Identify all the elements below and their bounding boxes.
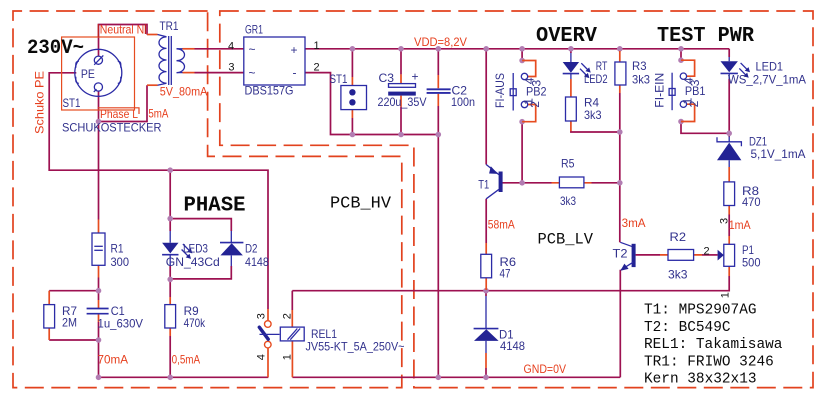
- junction R6/D1: [483, 288, 489, 294]
- svg-text:T1: T1: [478, 177, 489, 191]
- svg-text:2: 2: [687, 100, 701, 107]
- svg-text:+: +: [291, 43, 298, 57]
- wire LED3/D2 node down to R9: [169, 279, 171, 297]
- svg-text:R5: R5: [561, 156, 575, 170]
- svg-text:5,1V_1mA: 5,1V_1mA: [751, 147, 806, 161]
- capacitor C3 electrolytic: [378, 70, 427, 110]
- svg-text:Schuko PE: Schuko PE: [33, 71, 47, 134]
- wire Phase branch to TR1 primary bottom: [99, 85, 148, 121]
- svg-text:0,5mA: 0,5mA: [172, 353, 201, 367]
- wire T1 base to PB2/R5 node: [502, 182, 522, 184]
- svg-text:~: ~: [249, 66, 256, 80]
- svg-text:470: 470: [742, 195, 761, 209]
- svg-text:3k3: 3k3: [584, 108, 602, 122]
- svg-text:SCHUKOSTECKER: SCHUKOSTECKER: [62, 120, 162, 134]
- diode D2: [220, 231, 269, 269]
- svg-text:D2: D2: [245, 241, 258, 255]
- wire C2 top riser: [437, 49, 439, 75]
- wire GND rail: [292, 376, 620, 378]
- svg-text:PCB_HV: PCB_HV: [330, 194, 391, 213]
- resistor R2: [660, 230, 702, 282]
- junction VDD C3: [398, 46, 404, 52]
- svg-text:4: 4: [256, 354, 268, 360]
- svg-text:1: 1: [719, 292, 731, 298]
- svg-text:-: -: [293, 66, 297, 80]
- svg-text:Phase L: Phase L: [100, 107, 138, 121]
- junction HV rail left: [96, 375, 102, 381]
- svg-text:TR1: TR1: [160, 19, 179, 33]
- wire VDD rail end down to LED1: [728, 49, 730, 57]
- svg-text:70mA: 70mA: [98, 353, 129, 367]
- wire PE junction down to LED3/D2 top node: [169, 170, 171, 218]
- wire R8 bottom to P1 top: [728, 215, 730, 237]
- svg-text:4: 4: [228, 40, 234, 52]
- wire node down to HV bottom rail: [98, 340, 100, 377]
- svg-text:OVERV: OVERV: [536, 25, 597, 48]
- svg-text:1mA: 1mA: [729, 218, 751, 232]
- wire R2 to P1 wiper: [702, 254, 718, 256]
- svg-text:300: 300: [111, 255, 130, 269]
- junction VDD PB1: [678, 46, 684, 52]
- wire VDD to R3 top: [619, 49, 621, 51]
- svg-text:GR1: GR1: [245, 23, 263, 37]
- svg-text:3mA: 3mA: [622, 216, 646, 230]
- wire C3 bottom drop: [400, 107, 402, 135]
- resistor R6: [481, 243, 517, 290]
- wire Phase down to R1: [98, 122, 100, 220]
- svg-text:2: 2: [704, 245, 710, 257]
- wire GR1 pin 1 to VDD rail: [315, 48, 730, 50]
- junction minus rail C3: [398, 132, 404, 138]
- relay REL1 contact: [256, 309, 294, 360]
- junction minus rail ST1: [350, 132, 356, 138]
- wire C1 bottom to node: [49, 322, 98, 340]
- svg-text:ST1: ST1: [63, 96, 81, 110]
- wire R5 right to T2 collector node: [592, 182, 620, 184]
- resistor R5: [552, 156, 592, 207]
- pushbutton PB1: [653, 60, 706, 121]
- capacitor C1: [87, 300, 143, 330]
- resistor R9: [165, 297, 206, 336]
- junction minus rail C2: [436, 132, 442, 138]
- wire D1 bottom to GND rail: [485, 368, 487, 377]
- wire C2 bottom long drop to GND rail: [437, 106, 439, 377]
- svg-text:GN_43Cd: GN_43Cd: [166, 255, 220, 269]
- svg-text:470k: 470k: [184, 316, 206, 330]
- potentiometer P1: [704, 218, 761, 298]
- svg-text:3: 3: [256, 313, 268, 319]
- junction GND rail D1: [483, 375, 489, 381]
- pushbutton PB2: [493, 61, 547, 122]
- wire TR1 secondary bottom to GR1 pin 3: [195, 72, 235, 74]
- svg-text:REL1: Takamisawa: REL1: Takamisawa: [644, 337, 783, 353]
- svg-text:47: 47: [500, 266, 511, 280]
- svg-text:PB2: PB2: [526, 85, 547, 99]
- label Neutral N: [98, 23, 145, 37]
- svg-text:3k3: 3k3: [668, 268, 688, 282]
- wire ST1 pin 1 riser: [351, 49, 353, 77]
- svg-text:230V~: 230V~: [27, 37, 84, 60]
- junction Phase at plug: [96, 119, 102, 125]
- wire D1 top lead: [485, 291, 487, 296]
- transistor T1 (PNP): [478, 165, 502, 199]
- svg-text:T1: MPS2907AG: T1: MPS2907AG: [644, 303, 757, 319]
- wire LED3 bottom: [169, 266, 171, 279]
- svg-text:PE: PE: [81, 67, 95, 81]
- svg-text:5mA: 5mA: [148, 107, 168, 121]
- svg-text:PB1: PB1: [685, 84, 706, 98]
- capacitor C2: [427, 75, 475, 109]
- svg-text:FI-AUS: FI-AUS: [493, 73, 507, 108]
- wire T1 collector to R6: [485, 199, 487, 243]
- wire base node to R5 left: [522, 182, 551, 184]
- svg-text:WS_2,7V_1mA: WS_2,7V_1mA: [728, 73, 806, 87]
- LED LED3: [162, 231, 220, 269]
- junction HV rail R9: [167, 375, 173, 381]
- resistor R4: [566, 89, 602, 123]
- relay REL1 coil: [280, 310, 404, 377]
- junction VDD ST1: [350, 46, 356, 52]
- svg-text:TR1: FRIWO 3246: TR1: FRIWO 3246: [644, 354, 774, 370]
- transistor T2 (NPN): [613, 242, 636, 270]
- wire VDD to PB1 top: [680, 49, 682, 60]
- connector ST1 schuko plug: [75, 49, 122, 96]
- wire HV bottom rail: [99, 376, 269, 378]
- svg-text:GND=0V: GND=0V: [524, 362, 567, 376]
- junction PE node: [167, 167, 173, 173]
- svg-text:T2: T2: [613, 246, 628, 260]
- wire T2 base to R2: [636, 254, 660, 256]
- svg-text:2: 2: [528, 101, 542, 108]
- svg-text:~: ~: [249, 43, 256, 57]
- connector ST1 schuko plug symbol box: [62, 37, 135, 110]
- bridge rectifier GR1: [228, 23, 320, 98]
- wire node to C1 top: [98, 291, 100, 300]
- svg-text:ST1: ST1: [330, 72, 348, 86]
- svg-text:4148: 4148: [245, 255, 269, 269]
- junction R5/T2 collector: [617, 180, 623, 186]
- transformer TR1: [147, 19, 207, 121]
- svg-text:C3: C3: [379, 71, 395, 85]
- svg-text:3k3: 3k3: [632, 72, 650, 86]
- svg-text:RT: RT: [596, 59, 608, 73]
- LED LED1: [721, 57, 807, 87]
- wire T2 collector riser: [619, 183, 621, 243]
- svg-text:R3: R3: [632, 59, 647, 73]
- svg-text:5V_80mA: 5V_80mA: [160, 84, 208, 98]
- wire HV rail stub to relay contact pin 4: [267, 348, 269, 377]
- wire VDD to LED2: [570, 49, 572, 53]
- wire Phase: plug bottom pin down to junction: [98, 91, 100, 121]
- wire LED1 bottom to DZ1 node: [728, 79, 730, 137]
- svg-text:1: 1: [314, 40, 320, 52]
- wire R4 bottom to R3 node: [570, 121, 572, 132]
- junction VDD LED2: [568, 46, 574, 52]
- junction R4/R3: [617, 129, 623, 135]
- svg-text:1u_630V: 1u_630V: [98, 316, 144, 330]
- connector ST1 (pcb): [330, 72, 367, 118]
- svg-text:FI-EIN: FI-EIN: [653, 73, 667, 108]
- junction PB1 top pin: [678, 57, 684, 63]
- svg-text:PCB_LV: PCB_LV: [538, 231, 594, 249]
- junction VDD R3: [617, 46, 623, 52]
- wire Neutral: plug top pin to TR1 primary top: [99, 25, 148, 57]
- svg-text:58mA: 58mA: [488, 217, 515, 231]
- junction VDD C2: [436, 46, 442, 52]
- junction VDD PB2: [519, 46, 525, 52]
- wire P1 bottom to relay drive node: [292, 276, 729, 291]
- PCB_LV boundary dashed frame: [220, 11, 813, 388]
- junction GND rail C2 drop: [436, 375, 442, 381]
- wire R9 bottom to HV rail: [169, 336, 171, 377]
- LED LED2: [563, 53, 608, 89]
- junction PB1 bottom pin: [678, 119, 684, 125]
- wire R3 bottom to node and down to R5 node: [619, 93, 621, 183]
- junction R1/R7/C1 top: [96, 288, 102, 294]
- svg-text:PHASE: PHASE: [184, 195, 246, 218]
- PCB_HV boundary dashed frame: [13, 11, 402, 388]
- svg-text:TEST PWR: TEST PWR: [657, 25, 754, 48]
- svg-text:220u_35V: 220u_35V: [378, 95, 427, 109]
- svg-text:LED3: LED3: [183, 242, 208, 256]
- junction T1 base: [519, 180, 525, 186]
- resistor R8: [724, 167, 761, 215]
- wire PB1 bottom to DZ1 node: [681, 122, 729, 134]
- wire R1 bottom to node: [49, 278, 98, 291]
- svg-text:3k3: 3k3: [560, 194, 576, 208]
- resistor R1: [92, 220, 129, 278]
- junction PB2 bottom pin: [519, 119, 525, 125]
- svg-text:500: 500: [742, 256, 761, 270]
- svg-text:R1: R1: [111, 241, 124, 255]
- label Phase L: [98, 107, 139, 121]
- junction LED3/D2 bottom: [167, 277, 173, 283]
- svg-text:4148: 4148: [500, 339, 525, 353]
- svg-text:LED1: LED1: [756, 60, 784, 74]
- wire PE: plug PE contact to relay contact pin 3: [49, 73, 268, 309]
- svg-text:2: 2: [314, 61, 320, 73]
- junction LED1/DZ1: [726, 131, 732, 137]
- wire D2 bottom to node: [170, 266, 231, 279]
- svg-text:DBS157G: DBS157G: [245, 84, 294, 98]
- svg-text:3: 3: [228, 61, 234, 73]
- svg-text:Kern 38x32x13: Kern 38x32x13: [644, 372, 757, 388]
- svg-text:100n: 100n: [451, 95, 475, 109]
- junction R7/C1 bottom: [96, 337, 102, 343]
- wire TR1 secondary top to GR1 pin 4: [195, 48, 235, 50]
- wire C3 top riser: [400, 49, 402, 75]
- zener diode DZ1: [717, 134, 806, 167]
- wire GR1 pin 2 down to minus rail: [315, 73, 439, 135]
- junction VDD T1: [483, 46, 489, 52]
- wire T2 emitter down to GND rail: [619, 270, 621, 378]
- wire ST1 pin 2 drop: [351, 118, 353, 135]
- svg-text:VDD=8,2V: VDD=8,2V: [414, 35, 467, 49]
- svg-text:Neutral N: Neutral N: [100, 23, 145, 37]
- wire LED3 top lead: [169, 219, 171, 231]
- wire relay coil pin2 riser: [291, 291, 293, 310]
- junction LED3/D2 top: [167, 216, 173, 222]
- diode D1: [474, 296, 526, 368]
- wire T1 emitter riser: [485, 49, 487, 165]
- svg-text:JV55-KT_5A_250V~: JV55-KT_5A_250V~: [306, 339, 405, 353]
- resistor R7: [44, 291, 78, 340]
- svg-text:LED2: LED2: [584, 72, 608, 86]
- wire PB2 bottom down to base node: [521, 122, 523, 183]
- wire VDD to PB2 top: [521, 49, 523, 61]
- svg-text:T2: BC549C: T2: BC549C: [644, 320, 731, 336]
- junction PB2 top pin: [519, 58, 525, 64]
- svg-text:+: +: [412, 70, 419, 84]
- wire D2 branch: [170, 219, 231, 231]
- svg-text:R2: R2: [670, 230, 687, 244]
- resistor R3: [615, 51, 650, 93]
- svg-text:2M: 2M: [62, 315, 77, 329]
